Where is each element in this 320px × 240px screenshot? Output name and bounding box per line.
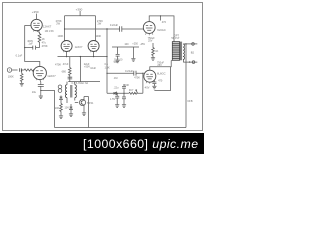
label 470K below — [134, 77, 140, 80]
label 0.1 1.5K pair — [105, 63, 110, 69]
resistor R bias divider — [60, 104, 63, 116]
wire left vertical V2 plate to V1 grid — [25, 25, 40, 66]
ground V2 cathode — [39, 96, 43, 99]
svg-text:470: 470 — [162, 21, 167, 24]
junction dot NFB tap — [185, 43, 186, 44]
wire PSU riser — [88, 97, 90, 128]
node +300 label — [76, 7, 83, 11]
svg-text:12AX7: 12AX7 — [47, 74, 56, 78]
svg-text:+300: +300 — [76, 7, 83, 11]
transistor Q1 regulator — [75, 97, 86, 108]
svg-text:1.5K: 1.5K — [49, 30, 54, 33]
svg-text:400V: 400V — [27, 40, 33, 43]
transformer PT core — [71, 85, 72, 98]
terminal output hot — [192, 43, 195, 46]
wire +300 supply drop — [79, 11, 81, 16]
label NFB — [188, 100, 193, 103]
svg-text:25V: 25V — [148, 39, 153, 42]
junction dot screen tap — [160, 15, 161, 16]
resistor R grid leak — [20, 74, 23, 84]
wire grid leak drop — [21, 70, 23, 74]
svg-text:-45V: -45V — [144, 87, 150, 90]
capacitor C input — [20, 68, 25, 72]
label 0.1uF corner — [16, 54, 23, 58]
transformer PT primary winding — [65, 85, 67, 98]
wire NFB vertical — [185, 44, 187, 128]
svg-text:1M: 1M — [45, 30, 48, 33]
wire rail drop left — [65, 16, 67, 41]
svg-text:47uF: 47uF — [63, 63, 69, 66]
label 0.22uF top — [110, 23, 118, 27]
ground screen cap — [116, 60, 120, 63]
capacitor C coupling top — [120, 26, 122, 31]
label .1M 100 — [113, 59, 123, 65]
schematic border frame — [3, 3, 203, 131]
label 47uF cathode V1 — [42, 41, 47, 45]
label 4K7 bias — [129, 89, 134, 92]
wire V1 supply drop — [36, 14, 38, 20]
svg-text:10V: 10V — [65, 107, 70, 110]
wire V3 cathode — [66, 52, 68, 57]
svg-text:100K: 100K — [58, 35, 64, 38]
wire rail drop right — [94, 16, 96, 41]
resistor R bias series — [129, 92, 136, 94]
svg-text:1K: 1K — [42, 37, 45, 41]
svg-text:470: 470 — [158, 80, 163, 83]
wire coupling bottom — [107, 72, 144, 74]
svg-text:100: 100 — [124, 43, 129, 46]
svg-text:470K: 470K — [55, 62, 61, 66]
label 1K cathode V5 — [155, 50, 158, 53]
svg-text:+250: +250 — [132, 43, 138, 46]
label above V4 — [95, 35, 101, 38]
label 270K right — [97, 19, 103, 26]
junction dot bus center — [80, 56, 81, 57]
svg-text:0.22uF: 0.22uF — [125, 69, 133, 73]
ground input — [20, 83, 24, 86]
junction dot grid bias — [142, 73, 143, 74]
label .22uF bias — [114, 87, 119, 90]
wire V6 plate to OPT — [150, 60, 172, 70]
ground drop 133 — [131, 59, 135, 62]
svg-text:.22u: .22u — [114, 87, 119, 90]
wire tail center drop — [79, 57, 81, 82]
label -45V pot — [144, 87, 150, 90]
svg-text:5K P-P: 5K P-P — [171, 37, 179, 40]
label 10K divider — [55, 107, 60, 110]
ground bias C1 — [115, 105, 119, 108]
capacitor C coupling bottom — [134, 71, 136, 76]
wire secondary top — [184, 43, 198, 45]
resistor R input series — [24, 69, 33, 71]
junction dot coupling top — [64, 28, 65, 29]
label 10uF V2 — [32, 90, 37, 94]
label 10uF — [90, 67, 96, 70]
svg-text:TIP41: TIP41 — [87, 102, 94, 105]
transformer OPT primary winding — [172, 42, 179, 61]
wire bias rail — [107, 92, 143, 94]
resistor R cathode V1 — [37, 31, 41, 48]
transformer OPT secondary winding — [183, 44, 185, 59]
svg-text:100K: 100K — [123, 84, 129, 87]
diode D zener — [70, 104, 73, 114]
capacitor C cathode V6 — [152, 81, 156, 86]
wire PT left lead — [66, 82, 68, 103]
capacitor C cathode V2 — [38, 80, 44, 96]
label V2 12AX7 — [47, 74, 56, 78]
ground cathode V6 — [152, 86, 156, 89]
svg-text:470K: 470K — [134, 77, 140, 80]
svg-text:470K: 470K — [42, 44, 48, 48]
wire cathode branch — [25, 47, 40, 49]
label -45V — [140, 43, 146, 46]
junction dot branch left — [24, 47, 25, 48]
tube V6 output — [144, 70, 156, 84]
ground Q1 — [82, 113, 86, 116]
capacitor C bias filter 2 — [122, 93, 126, 104]
label 470 screen — [162, 21, 167, 24]
svg-text:56K: 56K — [114, 61, 119, 64]
wire V4 cathode — [93, 52, 95, 57]
label .1M below — [113, 77, 117, 80]
svg-text:[1000x660] upic.me: [1000x660] upic.me — [83, 137, 198, 151]
label zener — [65, 107, 70, 110]
transformer PT secondary winding — [75, 85, 77, 98]
ground zener — [69, 114, 73, 117]
label Q1 regulator — [87, 102, 94, 105]
junction dot bus V3 — [66, 56, 67, 57]
label 470K tail — [55, 62, 61, 66]
PSU heater label row — [72, 82, 89, 85]
label 1.5V bias — [110, 98, 115, 101]
junction dot secondary bottom — [189, 61, 190, 62]
svg-text:6L6GC: 6L6GC — [157, 72, 166, 76]
terminal output common — [192, 61, 195, 64]
svg-text:2W: 2W — [98, 22, 102, 25]
tube V4 driver — [88, 41, 99, 53]
label 1K cathode V1 — [42, 37, 45, 41]
tube V3 driver — [61, 41, 72, 53]
label 680 tail — [62, 69, 67, 73]
label V1 12AX7 — [43, 24, 52, 28]
label 100 — [124, 43, 129, 46]
label V1 extra rows — [45, 30, 54, 33]
svg-text:0-T 6.3VAC 3A: 0-T 6.3VAC 3A — [72, 82, 89, 85]
svg-text:10uF: 10uF — [90, 67, 96, 70]
svg-text:100K: 100K — [95, 35, 101, 38]
junction dot link bus — [106, 56, 107, 57]
label 750 25uF below V5 — [148, 37, 156, 43]
label 0.22uF bottom — [125, 69, 133, 73]
input jack J1 — [7, 68, 17, 72]
svg-text:47u: 47u — [42, 41, 47, 45]
wire NFB riser to V2 cathode — [41, 91, 55, 128]
svg-text:+50V: +50V — [84, 66, 90, 69]
label 750uF 25V above V6 — [157, 61, 165, 67]
wire NFB bottom rail — [55, 127, 187, 129]
wire Q1 collector up — [84, 96, 89, 98]
svg-text:12AX7: 12AX7 — [75, 45, 83, 49]
svg-text:NFB: NFB — [188, 100, 193, 103]
wire phase link vertical — [106, 29, 108, 94]
svg-text:100K: 100K — [8, 74, 14, 78]
label 100K bias top — [123, 84, 129, 87]
svg-text:10u: 10u — [32, 90, 37, 94]
svg-text:0.1uF: 0.1uF — [16, 54, 23, 58]
capacitor C tail bypass — [68, 77, 73, 79]
label 8 ohm — [191, 51, 194, 55]
svg-text:2W: 2W — [56, 22, 60, 25]
label 22uF right of tail — [84, 63, 91, 69]
ground bias C2 — [122, 105, 126, 108]
junction dot bias 2 — [123, 93, 124, 94]
tube V2 input — [33, 66, 46, 80]
label 470 V6 cathode — [158, 80, 163, 83]
svg-text:680: 680 — [62, 69, 67, 73]
wire screen drop — [160, 16, 162, 21]
resistor R cathode V5 — [152, 43, 155, 58]
junction dot V2 cathode — [40, 90, 41, 91]
wire screen rail — [112, 46, 139, 48]
svg-text:-45V: -45V — [140, 43, 146, 46]
wire V1 grid left — [25, 24, 31, 26]
capacitor C bypass branch — [33, 46, 36, 50]
junction dot bias 1 — [117, 93, 118, 94]
node +350 label — [32, 10, 39, 14]
AC source circle 1 — [58, 85, 62, 89]
capacitor C bias input — [122, 84, 126, 93]
label 6L6GC V5 — [157, 28, 166, 32]
svg-text:12AX7: 12AX7 — [43, 24, 52, 28]
wire +300 rail — [65, 15, 96, 17]
capacitor C screen decouple — [116, 47, 120, 60]
wire coupling top — [65, 28, 144, 30]
ground cathode V5 — [151, 58, 155, 61]
label +250 — [132, 43, 138, 46]
ground divider — [59, 116, 63, 119]
label 470K — [42, 44, 48, 48]
wire cathode return L — [154, 67, 170, 91]
AC source circle 2 — [58, 89, 62, 93]
junction dot coupling bottom — [106, 73, 107, 74]
label 12AX7 between drivers — [75, 45, 83, 49]
tube V1 12AX7 — [31, 19, 42, 31]
transformer OPT label — [171, 33, 179, 40]
svg-text:0.22uF: 0.22uF — [110, 23, 118, 27]
wire drop 133 — [132, 47, 134, 58]
svg-text:+350: +350 — [32, 10, 39, 14]
label 100K input — [8, 74, 14, 78]
wire secondary bottom — [184, 60, 198, 63]
svg-text:6L6GC: 6L6GC — [157, 28, 166, 32]
wire PSU top line — [68, 81, 100, 83]
potentiometer wiper arrow — [136, 90, 138, 94]
svg-text:10K: 10K — [55, 107, 60, 110]
svg-text:8Ω: 8Ω — [191, 51, 194, 55]
svg-text:.1M: .1M — [113, 77, 117, 80]
wire V6 grid bias riser — [142, 73, 144, 93]
label 270K left — [56, 19, 62, 26]
wire Q1 emitter ground — [83, 107, 85, 113]
label 47uF tail — [63, 63, 69, 66]
svg-text:1K: 1K — [155, 50, 158, 53]
capacitor C bias filter 1 — [115, 93, 119, 104]
junction dot input — [21, 69, 22, 70]
resistor R tail — [69, 57, 72, 82]
junction dot bus V4 — [93, 56, 94, 57]
transformer OPT core — [181, 42, 182, 61]
svg-text:1.5V: 1.5V — [110, 98, 115, 101]
wire cathode bus — [58, 56, 108, 58]
junction dot link top — [106, 28, 107, 29]
diode D bias — [114, 92, 117, 95]
label above V3 — [58, 35, 64, 38]
tube V5 output — [143, 22, 155, 36]
label 6L6GC V6 — [157, 72, 166, 76]
diode D rectifier — [60, 96, 63, 104]
watermark bar — [0, 133, 204, 154]
wire PT right lead — [74, 82, 76, 101]
label .1uF 400V — [27, 40, 33, 45]
wire V5 plate to OPT — [149, 16, 174, 42]
svg-text:4K7: 4K7 — [129, 89, 134, 92]
